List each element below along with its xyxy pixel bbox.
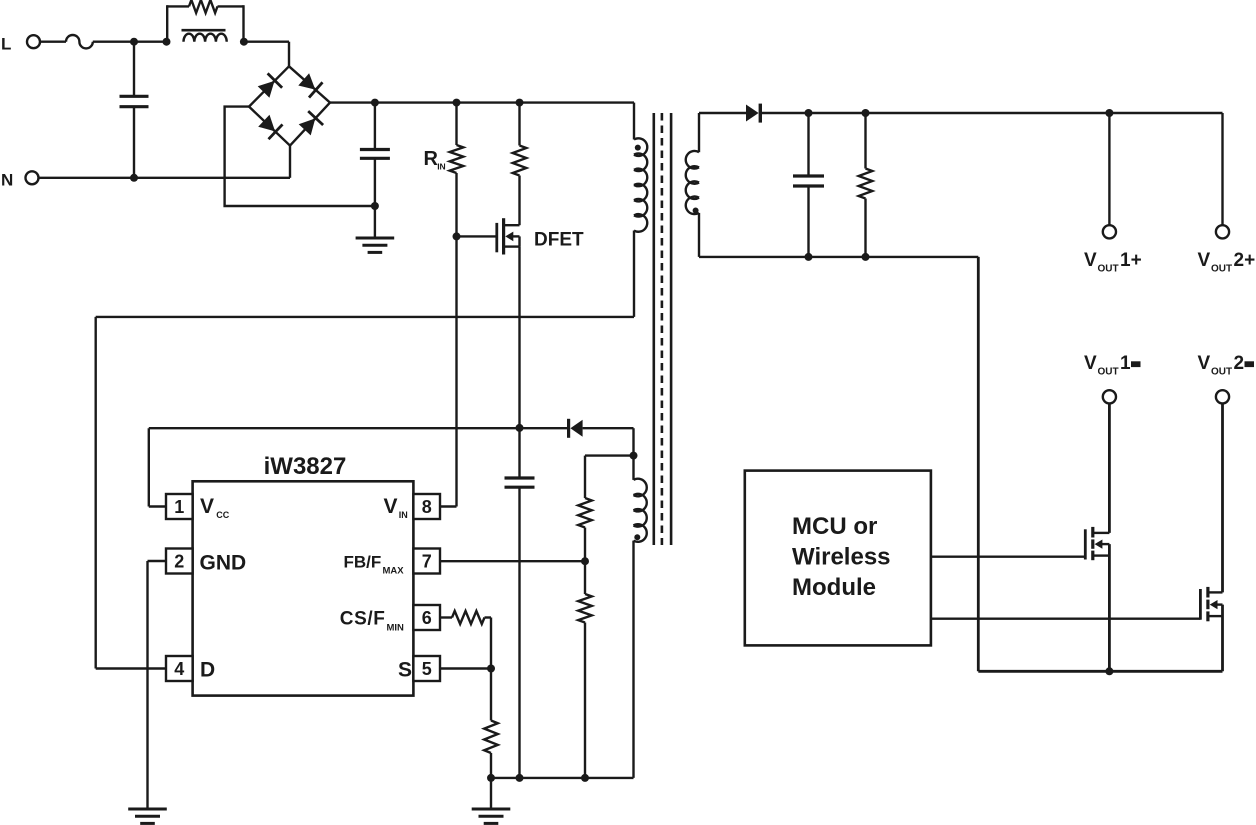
svg-text:OUT: OUT [1098, 264, 1119, 275]
svg-text:6: 6 [422, 608, 432, 628]
terminal L [27, 35, 40, 48]
resistor output preload [859, 113, 873, 257]
wire vout2- to Q2 drain [1221, 403, 1224, 592]
wire D pin [96, 667, 166, 669]
node RIN top [453, 99, 461, 107]
fuse F1 [66, 35, 93, 48]
secondary phase dot [693, 208, 699, 214]
transformer core left [652, 113, 655, 545]
terminal VOUT2- [1216, 390, 1229, 403]
wire pin6 stub [440, 616, 452, 618]
svg-text:5: 5 [422, 659, 432, 679]
wire Q1 gate [931, 556, 1085, 558]
pin 2 [166, 549, 193, 574]
node bulk cap bottom [371, 202, 379, 210]
node choke right junction [240, 38, 248, 46]
wire DFET gate [457, 235, 497, 237]
node aux top junction [630, 452, 638, 460]
transistor DFET [497, 218, 520, 254]
svg-text:V: V [1198, 250, 1211, 271]
wire aux to divider [585, 454, 634, 456]
MCU module box [745, 471, 931, 646]
resistor choke damping [189, 0, 218, 13]
svg-text:4: 4 [174, 659, 184, 679]
label DFET [534, 230, 584, 251]
diode output rectifier [746, 104, 760, 123]
wire D rail down [94, 317, 96, 669]
wire bridge negative return [225, 107, 375, 206]
bridge rectifier frame [249, 66, 330, 145]
resistor sense [484, 669, 498, 778]
node outcap bottom [805, 253, 813, 261]
choke core bar [182, 29, 226, 32]
svg-text:OUT: OUT [1211, 264, 1232, 275]
wire damping resistor leads [167, 5, 243, 7]
wire primary ground bus [491, 777, 634, 779]
svg-text:S: S [398, 659, 412, 682]
wire pin5 to S node [440, 667, 491, 669]
terminal N [26, 171, 39, 184]
wire secondary top [699, 112, 746, 114]
wire VCC to pin1 [149, 428, 166, 506]
resistor FB lower [578, 561, 592, 778]
svg-text:2: 2 [1234, 353, 1245, 374]
svg-text:MAX: MAX [383, 565, 405, 576]
node snubber top [516, 99, 524, 107]
wire secondary ground bus [978, 670, 1222, 673]
diode bridge D-a [258, 73, 282, 97]
svg-text:L: L [1, 34, 11, 53]
wire Q2 gate [931, 618, 1201, 620]
wire bus to primary [633, 103, 635, 140]
svg-text:iW3827: iW3827 [264, 453, 347, 480]
svg-text:IN: IN [399, 510, 408, 520]
op-amp U1 iW3827 body [193, 481, 414, 695]
wire fuse to choke [93, 41, 167, 43]
svg-text:CC: CC [216, 510, 229, 520]
svg-text:OUT: OUT [1098, 367, 1119, 378]
svg-text:N: N [1, 171, 13, 190]
wire choke to bridge [244, 42, 289, 67]
label L [1, 34, 11, 53]
svg-text:D: D [200, 659, 215, 682]
ground primary-bus [472, 778, 511, 824]
svg-text:V: V [1084, 353, 1097, 374]
label FB/FMAX pin [344, 552, 405, 576]
node L-Xcap junction [130, 38, 138, 46]
svg-text:2: 2 [174, 552, 184, 572]
label CS/FMIN pin [340, 609, 404, 634]
node outres bottom [862, 253, 870, 261]
aux phase dot [634, 534, 640, 540]
wire L to fuse [40, 41, 66, 43]
label VCC pin [200, 495, 230, 520]
pin 6 [413, 605, 440, 630]
node vout1 tap [1105, 109, 1113, 117]
svg-text:Module: Module [792, 574, 876, 601]
node FB junction [581, 557, 589, 565]
transformer core gap [661, 113, 664, 545]
svg-text:1+: 1+ [1120, 250, 1142, 271]
svg-text:V: V [1198, 353, 1211, 374]
wire CS corner [485, 618, 492, 669]
svg-text:V: V [1084, 250, 1097, 271]
terminal VOUT1+ [1103, 225, 1116, 238]
wire secondary return [699, 256, 978, 258]
node RIN gate tap [453, 232, 461, 240]
node bulk cap top [371, 99, 379, 107]
wire choke left riser [166, 5, 168, 42]
node VCC cap top [516, 424, 524, 432]
node FB lower bottom [581, 774, 589, 782]
pin 5 [413, 656, 440, 681]
svg-text:V: V [384, 495, 398, 518]
diode VCC rectifier [569, 419, 634, 438]
svg-text:MCU or: MCU or [792, 513, 877, 540]
label GND pin [200, 552, 247, 575]
node N-Xcap junction [130, 174, 138, 182]
svg-text:OUT: OUT [1211, 367, 1232, 378]
wire choke right riser [242, 5, 244, 42]
svg-text:V: V [200, 495, 214, 518]
svg-text:IN: IN [437, 162, 446, 172]
terminal VOUT1- [1103, 390, 1116, 403]
label VOUT1- [1084, 353, 1140, 378]
transformer primary winding [634, 138, 647, 231]
wire GND pin to ground [148, 561, 167, 809]
label iW3827 [264, 453, 347, 480]
primary phase dot [635, 145, 641, 151]
svg-text:1: 1 [1120, 353, 1131, 374]
diode bridge D-c [258, 115, 282, 139]
wire HV bus [330, 101, 634, 103]
wire vout1- to Q1 drain [1108, 403, 1111, 533]
wire return down [977, 257, 980, 671]
label S pin [398, 659, 412, 682]
pin 1 [166, 494, 193, 519]
transistor Q2 [1200, 587, 1222, 621]
node sense bottom [487, 774, 495, 782]
svg-text:8: 8 [422, 497, 432, 517]
label VOUT1+ [1084, 250, 1142, 275]
pin 7 [413, 549, 440, 574]
label VIN pin [384, 495, 408, 520]
label VOUT2+ [1198, 250, 1256, 275]
terminal VOUT2+ [1216, 225, 1229, 238]
transistor Q1 [1085, 527, 1109, 560]
wire Q1 source down [1108, 544, 1111, 671]
transformer aux winding [634, 456, 647, 778]
inductor common-mode choke [184, 34, 227, 42]
transformer core right [670, 113, 673, 545]
node Q1 source junction [1105, 667, 1113, 675]
resistor RIN [450, 103, 464, 237]
wire FB to pin7 [440, 560, 585, 562]
ground IC-GND [128, 809, 167, 823]
ground primary-return [356, 206, 395, 252]
wire vout1+ drop [1108, 113, 1110, 225]
svg-text:7: 7 [422, 552, 432, 572]
label MCU [792, 513, 891, 601]
capacitor bulk [360, 103, 390, 206]
node choke left junction [163, 38, 171, 46]
capacitor output [793, 113, 824, 257]
wire VCC rail [149, 427, 567, 429]
svg-text:GND: GND [200, 552, 247, 575]
diode bridge D-d [299, 111, 323, 135]
capacitor VCC [505, 428, 535, 778]
wire DFET source down [518, 247, 520, 428]
svg-text:2+: 2+ [1234, 250, 1256, 271]
wire Q2 source down [1221, 605, 1224, 672]
svg-text:DFET: DFET [534, 230, 584, 251]
wire RIN to VIN pin [440, 236, 457, 506]
pin 8 [413, 494, 440, 519]
svg-text:Wireless: Wireless [792, 544, 891, 571]
label VOUT2- [1198, 353, 1254, 378]
wire output bus [760, 112, 1222, 114]
svg-text:FB/F: FB/F [344, 552, 382, 571]
label N [1, 171, 13, 190]
svg-text:MIN: MIN [387, 623, 405, 634]
transformer secondary winding [686, 113, 699, 257]
label RIN [424, 148, 446, 172]
wire N line [38, 177, 290, 179]
node outcap top [805, 109, 813, 117]
diode bridge D-b [298, 73, 322, 97]
svg-text:CS/F: CS/F [340, 609, 386, 630]
pin 4 [166, 656, 193, 681]
wire aux top corner [632, 428, 634, 455]
resistor CS [452, 611, 485, 624]
wire bridge AC bottom [289, 146, 291, 178]
resistor FB upper [578, 456, 592, 562]
resistor DFET drain [513, 103, 527, 226]
node S junction [487, 665, 495, 673]
node outres top [862, 109, 870, 117]
svg-text:1: 1 [174, 497, 184, 517]
label D pin [200, 659, 215, 682]
node VCC cap bottom [516, 774, 524, 782]
capacitor X-cap [120, 42, 149, 178]
wire vout2+ drop [1221, 113, 1223, 225]
wire primary bottom to D rail [96, 231, 634, 317]
